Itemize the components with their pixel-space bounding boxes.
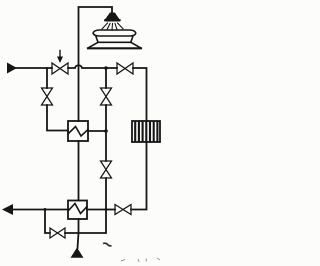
actuator arrow on CV1	[59, 51, 61, 58]
junction dot bottom right	[105, 208, 108, 211]
valve V5 (vertical, right lower)	[101, 161, 112, 178]
wire top header pipe	[79, 7, 113, 121]
arrow outlet (bottom-left, filled)	[2, 204, 13, 215]
wire valve V3 to HX1 left port	[47, 105, 68, 131]
radiator (hatched box)	[132, 121, 160, 142]
valve V4 (vertical, right upper)	[101, 88, 112, 105]
wire junction to valve V6	[106, 209, 115, 211]
wire HX2 bottom to bottom row junction	[78, 219, 80, 233]
scan noise bottom faint marks	[121, 258, 160, 262]
valve V6 (bottom right horizontal)	[115, 205, 131, 215]
spray nozzle (shower head)	[104, 13, 121, 22]
wire branch x47 down	[46, 68, 48, 88]
wire HX2 right port to junction	[87, 209, 106, 211]
wire junction down to supply triangle	[78, 233, 79, 248]
wire main line left	[16, 67, 52, 69]
junction dot HX1 right	[104, 129, 108, 133]
junction dot main line	[104, 66, 108, 70]
junction dot bottom arrow line	[44, 208, 47, 211]
control valve CV1	[52, 63, 68, 74]
wire HX1 right port to junction	[88, 130, 106, 132]
heat exchanger E1	[68, 121, 88, 141]
basin (open vessel)	[88, 30, 141, 48]
spray lines	[102, 23, 123, 30]
arrow inlet (top-left, filled)	[7, 63, 17, 74]
wire right vertical upper	[105, 68, 107, 88]
wire radiator bottom down, corner left	[131, 142, 147, 210]
wire bottom arrow line to HX2 left port	[12, 209, 68, 211]
wire branch x45 down to bottom row	[45, 210, 50, 234]
valve V7 (bottom row horizontal)	[50, 228, 65, 238]
valve V3 (vertical, left)	[42, 88, 53, 105]
wire right vertical lower to bottom row corner	[65, 178, 106, 233]
wire main line with hop over vertical	[68, 65, 117, 68]
wire main line right to corner, down	[133, 68, 147, 121]
supply arrow triangle (filled, up)	[71, 248, 84, 258]
valve V2 (top right horizontal)	[117, 63, 133, 74]
wire HX1 bottom to HX2 top	[78, 141, 80, 201]
wire right vertical middle	[105, 105, 107, 161]
heat exchanger E2	[68, 201, 87, 220]
scan noise squiggle	[103, 243, 112, 246]
